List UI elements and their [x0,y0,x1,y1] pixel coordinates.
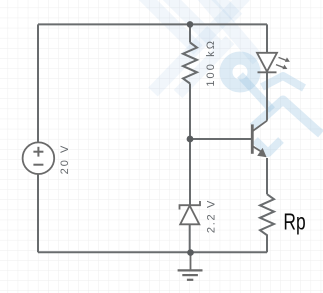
resistor Rp zigzag [260,194,274,236]
wire zener top [189,139,191,206]
watermark band 2 [167,0,217,45]
svg-text:20 V: 20 V [59,144,71,175]
svg-text:2.2 V: 2.2 V [205,199,217,233]
wire left vertical upper [37,24,39,142]
LED arrows [276,57,290,69]
wire LED top [266,24,268,52]
wire LED to collector [266,72,268,121]
watermark band 1 [142,0,198,50]
transistor Q1 [252,121,267,158]
wire bottom [38,251,267,253]
wire resistor top [189,24,191,42]
voltage source V1 [23,142,55,174]
watermark band 4 [201,0,258,60]
watermark arch lower [253,100,321,134]
svg-text:Rp: Rp [283,209,305,235]
watermark band 3 ascending [153,0,245,92]
wire base [190,138,252,140]
wire resistor bottom [189,84,191,139]
watermark arch upper [262,76,304,88]
svg-text:100 kΩ: 100 kΩ [205,39,217,87]
junction node bottom [187,249,194,256]
resistor R1 100k zigzag [183,43,197,84]
ground [178,253,203,280]
wire Rp bottom [266,236,268,252]
watermark ring letter [226,58,254,86]
watermark band 5 [240,75,272,110]
watermark [142,0,258,94]
watermark band 3b ascending [178,40,230,94]
zener diode D2 [180,201,201,224]
junction node top [187,21,194,28]
watermark v tip [255,140,281,153]
wire left vertical lower [37,174,39,252]
wire emitter to Rp [266,158,268,194]
LED D1 [257,53,277,73]
junction node base [187,136,194,143]
wire zener bottom [189,224,191,252]
watermark band 6 [214,0,238,18]
wire top [38,23,267,25]
